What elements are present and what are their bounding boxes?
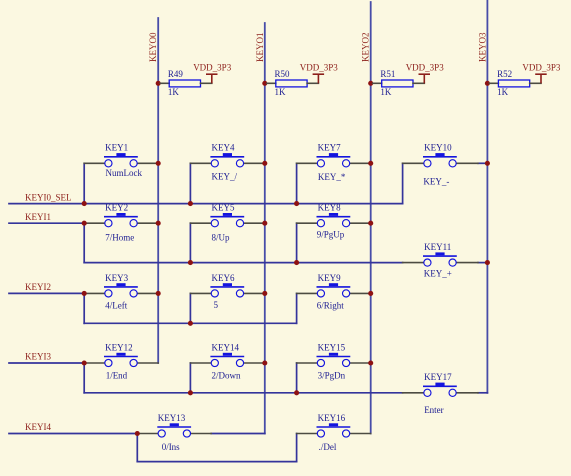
svg-text:9/PgUp: 9/PgUp <box>317 230 345 240</box>
key switch KEY16 <box>297 423 371 437</box>
power port VDD_3P3 at R51 <box>419 74 431 83</box>
svg-text:4/Left: 4/Left <box>105 301 127 311</box>
junction at 137.3,433.5 <box>135 431 140 436</box>
junction at 264.8,293.4 <box>262 291 267 296</box>
key switch KEY13 <box>137 423 211 437</box>
wire net KEYI3 row <box>9 362 84 364</box>
junction at 487.4,262.6 <box>485 260 490 265</box>
resistor R52 <box>498 80 529 87</box>
svg-text:3/PgDn: 3/PgDn <box>318 370 346 380</box>
key switch KEY5 <box>190 213 264 227</box>
junction at 264.8,223.2 <box>262 221 267 226</box>
svg-text:6/Right: 6/Right <box>317 301 345 311</box>
svg-text:5: 5 <box>214 300 219 310</box>
wire KEY14 leg to KEYI3 ext <box>189 363 191 393</box>
svg-text:1K: 1K <box>168 87 180 97</box>
power port VDD_3P3 at R49 <box>206 74 218 83</box>
key switch KEY12 <box>84 353 158 367</box>
junction col KEYO3 / R52 <box>485 81 490 86</box>
svg-text:NumLock: NumLock <box>106 168 143 178</box>
junction at 370.7,293.4 <box>368 291 373 296</box>
svg-text:2/Down: 2/Down <box>212 370 241 380</box>
resistor R51 <box>382 80 413 87</box>
junction col KEYO2 / R51 <box>368 81 373 86</box>
svg-text:8/Up: 8/Up <box>212 232 231 242</box>
wire KEY10 pin to KEYO3 <box>478 162 487 164</box>
junction at 158.2,163.3 <box>156 161 161 166</box>
svg-text:KEY14: KEY14 <box>212 342 240 352</box>
junction at 84.2,223.2 <box>82 221 87 226</box>
key switch KEY10 <box>403 153 478 167</box>
junction at 158.2,223.2 <box>156 221 161 226</box>
resistor R52 pin 1 <box>489 82 498 84</box>
svg-text:KEYO3: KEYO3 <box>477 32 487 62</box>
key switch KEY7 <box>297 153 371 167</box>
resistor R49 pin 2 <box>201 82 212 84</box>
junction at 264.8,363.0 <box>262 360 267 365</box>
svg-text:Enter: Enter <box>424 405 444 415</box>
svg-text:KEYO0: KEYO0 <box>148 32 158 62</box>
resistor R50 pin 1 <box>267 82 276 84</box>
wire KEY8 leg to KEYI1 ext <box>296 223 298 262</box>
svg-text:KEYI4: KEYI4 <box>25 422 51 432</box>
svg-text:KEY8: KEY8 <box>318 203 341 213</box>
wire KEY10 riser from KEYI0_SEL <box>402 163 404 203</box>
svg-text:R49: R49 <box>168 69 184 79</box>
junction at 158.2,293.4 <box>156 291 161 296</box>
key switch KEY6 <box>190 283 264 297</box>
svg-text:1K: 1K <box>497 87 509 97</box>
junction at 370.7,163.3 <box>368 161 373 166</box>
junction col KEYO1 / R50 <box>262 81 267 86</box>
svg-text:KEYI1: KEYI1 <box>25 212 51 222</box>
svg-text:KEYI2: KEYI2 <box>25 282 51 292</box>
svg-text:KEY11: KEY11 <box>424 242 451 252</box>
wire net KEYO3 column <box>486 0 488 393</box>
svg-text:KEY1: KEY1 <box>105 143 128 153</box>
junction at 190.4,392.8 <box>188 390 193 395</box>
junction at 84.2,363.0 <box>82 360 87 365</box>
svg-text:KEY10: KEY10 <box>424 143 452 153</box>
resistor R50 <box>276 80 307 87</box>
svg-text:KEYO2: KEYO2 <box>361 33 371 63</box>
svg-text:R50: R50 <box>275 69 291 79</box>
junction at 296.6,392.8 <box>294 390 299 395</box>
resistor R50 pin 2 <box>307 82 318 84</box>
wire net KEYI4 row <box>9 433 137 435</box>
wire KEY15 leg to KEYI3 ext <box>296 363 298 393</box>
junction at 487.4,163.3 <box>485 161 490 166</box>
wire KEY11 pin to KEYO3 <box>478 262 487 264</box>
key switch KEY2 <box>84 213 158 227</box>
key switch KEY15 <box>297 353 371 367</box>
junction at 296.6,262.6 <box>294 260 299 265</box>
svg-text:0/Ins: 0/Ins <box>162 442 180 452</box>
wire KEY16 leg to KEYI4 ext <box>296 434 298 462</box>
svg-text:KEYI3: KEYI3 <box>25 352 51 362</box>
svg-text:KEYO1: KEYO1 <box>255 33 265 63</box>
svg-text:KEY_-: KEY_- <box>423 177 449 187</box>
wire net KEYI0_SEL row <box>9 203 403 205</box>
svg-text:R52: R52 <box>497 69 512 79</box>
svg-text:1K: 1K <box>380 87 392 97</box>
junction at 84.2,203.6 <box>82 201 87 206</box>
key switch KEY17 <box>403 383 478 397</box>
key switch KEY11 <box>403 252 478 266</box>
wire KEYI4 drop <box>136 434 138 462</box>
resistor R51 pin 1 <box>373 82 382 84</box>
wire col KEYO3 to KEY17 <box>478 392 487 394</box>
junction at 296.6,203.6 <box>294 201 299 206</box>
svg-text:KEY3: KEY3 <box>105 273 128 283</box>
key switch KEY3 <box>84 283 158 297</box>
svg-text:KEY_+: KEY_+ <box>424 269 452 279</box>
wire KEYI2 extension <box>84 322 296 324</box>
junction at 84.2,293.4 <box>82 291 87 296</box>
junction at 190.4,262.6 <box>188 260 193 265</box>
junction at 370.7,223.2 <box>368 221 373 226</box>
key switch KEY14 <box>190 353 264 367</box>
key switch KEY9 <box>297 283 371 297</box>
key switch KEY8 <box>297 213 371 227</box>
svg-text:KEY6: KEY6 <box>212 273 235 283</box>
svg-text:VDD_3P3: VDD_3P3 <box>300 63 339 73</box>
svg-text:KEY_*: KEY_* <box>318 172 346 182</box>
resistor R52 pin 2 <box>530 82 541 84</box>
svg-text:KEY16: KEY16 <box>318 413 346 423</box>
svg-text:KEY12: KEY12 <box>105 342 133 352</box>
svg-text:KEY7: KEY7 <box>318 143 341 153</box>
wire net KEYI1 row <box>9 222 84 224</box>
wire KEY9 leg to KEYI2 ext <box>296 293 298 323</box>
svg-text:VDD_3P3: VDD_3P3 <box>193 63 232 73</box>
svg-text:KEY4: KEY4 <box>212 143 235 153</box>
svg-text:KEY13: KEY13 <box>158 413 186 423</box>
wire KEY4 leg to KEYI0_SEL <box>189 163 191 203</box>
svg-text:KEY17: KEY17 <box>424 372 452 382</box>
wire KEYI1 extension <box>84 262 402 264</box>
svg-text:KEY2: KEY2 <box>105 203 128 213</box>
wire col KEYO1 to KEY13 <box>211 433 265 435</box>
wire net KEYO2 column <box>370 2 372 434</box>
svg-text:KEY9: KEY9 <box>318 273 341 283</box>
power port VDD_3P3 at R52 <box>535 74 547 83</box>
svg-text:KEY_/: KEY_/ <box>212 171 238 181</box>
svg-text:./Del: ./Del <box>319 442 337 452</box>
svg-text:1/End: 1/End <box>106 370 128 380</box>
wire net KEYO0 column <box>157 18 159 363</box>
wire KEYI3 extension <box>84 392 402 394</box>
wire KEY1 leg to KEYI0_SEL <box>83 163 85 203</box>
wire KEYI4 extension <box>137 461 296 463</box>
svg-text:VDD_3P3: VDD_3P3 <box>522 63 561 73</box>
junction at 370.7,363.0 <box>368 360 373 365</box>
key switch KEY4 <box>190 153 264 167</box>
wire KEYI1 drop <box>83 223 85 262</box>
resistor R51 pin 2 <box>413 82 424 84</box>
wire KEY5 leg to KEYI1 ext <box>189 223 191 262</box>
wire KEYI2 drop <box>83 293 85 323</box>
svg-text:KEY5: KEY5 <box>212 203 235 213</box>
wire KEY7 leg to KEYI0_SEL <box>296 163 298 203</box>
wire net KEYI2 row <box>9 292 84 294</box>
resistor R49 <box>169 80 200 87</box>
wire KEYI3 drop <box>83 363 85 393</box>
junction at 264.8,163.3 <box>262 161 267 166</box>
svg-text:7/Home: 7/Home <box>105 232 134 242</box>
svg-text:KEY15: KEY15 <box>318 342 346 352</box>
svg-text:1K: 1K <box>275 87 287 97</box>
junction col KEYO0 / R49 <box>156 81 161 86</box>
svg-text:R51: R51 <box>380 69 395 79</box>
svg-text:VDD_3P3: VDD_3P3 <box>406 63 445 73</box>
resistor R49 pin 1 <box>160 82 169 84</box>
power port VDD_3P3 at R50 <box>313 74 325 83</box>
svg-text:KEYI0_SEL: KEYI0_SEL <box>25 192 72 202</box>
junction at 190.4,323.3 <box>188 321 193 326</box>
junction at 190.4,203.6 <box>188 201 193 206</box>
key switch KEY1 <box>84 153 158 167</box>
wire KEY6 leg to KEYI2 ext <box>189 293 191 323</box>
wire net KEYO1 column <box>264 23 266 434</box>
